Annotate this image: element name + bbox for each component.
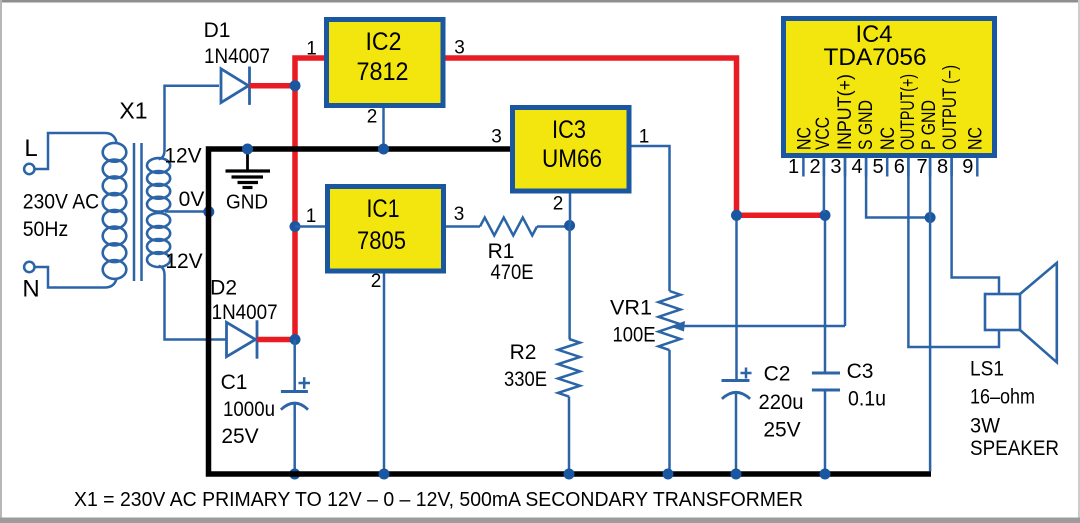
wire IC4 pin4 SGND to pin7 xyxy=(866,158,930,218)
svg-text:NC: NC xyxy=(966,127,987,150)
svg-text:OUTPUT(+): OUTPUT(+) xyxy=(898,74,919,150)
node C1 ground xyxy=(289,469,300,480)
pin 1 label IC3 xyxy=(639,127,650,148)
node IC2 ground xyxy=(378,144,389,155)
resistor R2 xyxy=(504,339,580,397)
node SGND-PGND xyxy=(925,212,936,223)
potentiometer VR1 xyxy=(610,291,681,350)
node IC1 input tap xyxy=(290,221,301,232)
pin 3 label IC2 xyxy=(454,38,465,59)
svg-text:UM66: UM66 xyxy=(542,145,602,173)
svg-text:GND: GND xyxy=(226,192,268,214)
wire IC1 pin2 to ground bus xyxy=(383,274,386,475)
wire D1 cathode to node (red) xyxy=(250,83,296,89)
pin 1 label IC1 xyxy=(306,206,317,227)
IC4 pin stubs xyxy=(803,158,977,177)
svg-text:3: 3 xyxy=(491,127,502,148)
svg-text:X1 = 230V AC PRIMARY TO 12V –: X1 = 230V AC PRIMARY TO 12V – 0 – 12V, 5… xyxy=(74,489,803,511)
wire secondary 12V bottom to D2 xyxy=(159,266,227,340)
wire IC3 pin2 xyxy=(569,194,572,226)
pin 3 label IC1 xyxy=(454,204,465,225)
svg-text:12V: 12V xyxy=(165,250,202,273)
node VCC / C3 xyxy=(820,210,831,221)
node IC1 ground xyxy=(379,469,390,480)
ground xyxy=(226,149,271,214)
node VR1 ground xyxy=(663,469,674,480)
svg-text:220u: 220u xyxy=(759,391,804,414)
terminal L xyxy=(24,135,38,174)
transformer X1 secondary windings xyxy=(147,158,170,267)
node C3 ground xyxy=(820,469,831,480)
wire IC4 pin2 VCC xyxy=(823,158,826,213)
label 230V AC 50Hz xyxy=(23,191,100,242)
pin 3 label IC3 xyxy=(491,127,502,148)
wire VR1 to ground bus xyxy=(668,350,671,474)
IC4 pin number labels xyxy=(788,156,973,178)
svg-text:D2: D2 xyxy=(210,277,237,300)
capacitor C1 xyxy=(221,371,310,448)
node D2 output xyxy=(290,334,301,345)
wire IC2 pin2 to ground bus xyxy=(382,108,385,149)
op-amp IC4 box xyxy=(784,19,995,156)
svg-text:0.1u: 0.1u xyxy=(848,388,886,411)
wire red rail to C2 xyxy=(735,215,738,380)
speaker LS1 xyxy=(970,263,1059,460)
svg-text:C2: C2 xyxy=(764,363,791,386)
svg-text:6: 6 xyxy=(894,156,905,178)
wire IC4 pin6 OUTPUT+ to speaker xyxy=(908,158,999,347)
svg-text:3: 3 xyxy=(454,38,465,59)
caption xyxy=(74,489,803,511)
svg-text:VR1: VR1 xyxy=(610,297,652,320)
svg-text:1000u: 1000u xyxy=(223,398,275,421)
pin 2 label IC3 xyxy=(553,194,564,215)
svg-text:IC1: IC1 xyxy=(367,195,400,223)
svg-text:LS1: LS1 xyxy=(970,358,1004,381)
svg-text:4: 4 xyxy=(851,156,862,178)
svg-text:X1: X1 xyxy=(119,98,147,124)
svg-text:1: 1 xyxy=(306,39,317,60)
svg-text:3W: 3W xyxy=(970,415,1000,438)
wire IC4 pin3 INPUT xyxy=(844,158,847,326)
svg-text:P GND: P GND xyxy=(919,100,940,150)
wire IC3 pin1 to VR1 xyxy=(632,146,670,291)
red rail down to D2 node xyxy=(292,86,298,340)
svg-text:IC2: IC2 xyxy=(366,28,402,56)
svg-text:0V: 0V xyxy=(179,188,205,211)
svg-text:R2: R2 xyxy=(510,341,537,364)
svg-text:7812: 7812 xyxy=(357,58,409,86)
wire VR1 wiper xyxy=(670,321,845,332)
capacitor C3 xyxy=(812,360,886,411)
svg-text:1: 1 xyxy=(788,156,799,178)
red rail from D1 node to IC2 pin1 xyxy=(295,58,324,88)
svg-text:100E: 100E xyxy=(613,324,656,347)
node ground tap xyxy=(242,144,253,155)
transformer X1 primary winding xyxy=(103,98,148,279)
svg-text:D1: D1 xyxy=(204,19,231,42)
svg-text:25V: 25V xyxy=(763,419,800,442)
wire IC4 pin8 OUTPUT- to speaker xyxy=(952,158,999,294)
wire R2 to ground bus xyxy=(568,397,571,475)
resistor R1 xyxy=(480,218,537,285)
svg-text:2: 2 xyxy=(371,271,382,292)
node 0V tap xyxy=(203,206,214,217)
wire secondary 0V tap xyxy=(165,210,208,213)
svg-text:12V: 12V xyxy=(164,145,201,168)
svg-text:1N4007: 1N4007 xyxy=(204,45,270,68)
wire C2 to ground bus xyxy=(735,393,738,475)
node D1 output xyxy=(290,80,301,91)
svg-text:3: 3 xyxy=(830,156,841,178)
svg-text:2: 2 xyxy=(809,156,820,178)
op-amp IC1 box xyxy=(328,187,444,272)
op-amp IC3 box xyxy=(513,108,630,192)
terminal N xyxy=(22,262,39,303)
svg-text:1N4007: 1N4007 xyxy=(212,301,278,324)
svg-text:INPUT(+): INPUT(+) xyxy=(835,74,856,150)
IC4 pin name labels xyxy=(795,65,987,150)
svg-text:8: 8 xyxy=(937,156,948,178)
svg-text:3: 3 xyxy=(454,204,465,225)
svg-text:7: 7 xyxy=(916,156,927,178)
svg-text:2: 2 xyxy=(367,107,378,128)
wire C1 to ground bus xyxy=(293,403,296,474)
wire node to C1 xyxy=(293,340,296,392)
wire IC1 pin3 to R1 xyxy=(446,225,480,228)
svg-text:OUTPUT (−): OUTPUT (−) xyxy=(940,65,961,150)
node C2 ground xyxy=(731,469,742,480)
pin 2 label IC1 xyxy=(371,271,382,292)
node R1 / IC3 pin2 xyxy=(564,220,575,231)
svg-text:1: 1 xyxy=(639,127,650,148)
wire secondary 12V top to D1 xyxy=(159,86,219,160)
svg-text:C3: C3 xyxy=(847,360,874,383)
wire D2 cathode to node (red) xyxy=(257,337,295,343)
node R2 ground xyxy=(564,469,575,480)
svg-text:VCC: VCC xyxy=(813,117,834,150)
wire IC4 pin7 PGND to ground bus xyxy=(929,158,932,472)
svg-text:NC: NC xyxy=(878,127,899,150)
svg-text:1: 1 xyxy=(306,206,317,227)
svg-text:330E: 330E xyxy=(504,368,547,391)
svg-text:TDA7056: TDA7056 xyxy=(824,44,927,71)
wire N to primary xyxy=(35,267,117,288)
svg-text:25V: 25V xyxy=(221,425,258,448)
wire IC2 output (red) xyxy=(446,58,826,215)
pin 1 label IC2 xyxy=(306,39,317,60)
wire C3 to ground bus xyxy=(824,390,827,474)
ground bus xyxy=(209,149,932,474)
svg-text:R1: R1 xyxy=(488,240,515,263)
svg-text:16–ohm: 16–ohm xyxy=(970,386,1035,409)
label 12V top xyxy=(164,145,201,168)
transformer X1 core xyxy=(134,143,142,281)
wire L to primary xyxy=(35,133,117,169)
node red rail / C2 xyxy=(731,210,742,221)
op-amp IC2 box xyxy=(327,20,444,106)
pin 2 label IC2 xyxy=(367,107,378,128)
capacitor C2 xyxy=(722,363,804,442)
svg-text:50Hz: 50Hz xyxy=(23,218,68,241)
svg-text:SPEAKER: SPEAKER xyxy=(970,437,1059,460)
svg-text:5: 5 xyxy=(873,156,884,178)
svg-text:9: 9 xyxy=(962,156,973,178)
svg-text:470E: 470E xyxy=(491,261,534,284)
wire VCC node to C3 xyxy=(824,215,827,373)
svg-text:7805: 7805 xyxy=(357,227,406,255)
wire IC1 pin1 xyxy=(295,225,325,228)
svg-text:2: 2 xyxy=(553,194,564,215)
svg-text:230V AC: 230V AC xyxy=(23,191,100,214)
svg-text:IC3: IC3 xyxy=(552,116,586,144)
svg-text:N: N xyxy=(22,276,39,303)
diode D1 xyxy=(204,19,270,105)
wire R1 to node xyxy=(537,225,570,228)
label 0V xyxy=(179,188,205,211)
svg-text:S GND: S GND xyxy=(856,100,877,150)
diode D2 xyxy=(210,277,277,359)
wire node to R2 xyxy=(568,226,571,340)
svg-text:C1: C1 xyxy=(221,371,248,394)
label 12V bottom xyxy=(165,250,202,273)
svg-text:L: L xyxy=(24,135,37,162)
